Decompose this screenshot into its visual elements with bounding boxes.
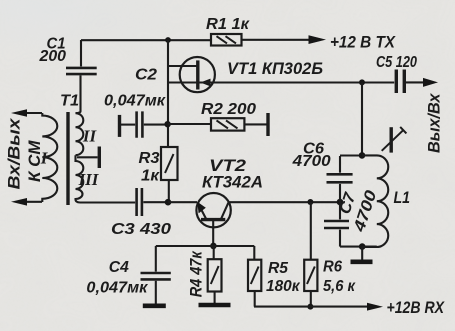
- label winding II: [82, 127, 98, 146]
- wire source rail: [168, 81, 394, 83]
- capacitor C2: [120, 111, 168, 137]
- svg-text:К СМ: К СМ: [25, 140, 44, 182]
- node emitter junction: [165, 199, 172, 206]
- svg-text:R4 47к: R4 47к: [187, 250, 206, 297]
- inductor L1: [362, 155, 388, 247]
- label winding I: [40, 149, 49, 168]
- resistor R6: [304, 202, 317, 307]
- node tank mid: [337, 199, 344, 206]
- ground tank: [351, 247, 373, 262]
- svg-text:Т1: Т1: [60, 93, 79, 110]
- transformer T1 core: [66, 112, 69, 205]
- label L1: [394, 188, 411, 207]
- resistor R3: [161, 147, 178, 202]
- label T1: [60, 93, 79, 110]
- svg-text:200: 200: [39, 48, 67, 65]
- wire +12V RX rail: [254, 303, 383, 311]
- resistor R2: [168, 118, 267, 130]
- label R6 value: [323, 259, 356, 296]
- capacitor C7: [324, 202, 349, 247]
- label C1 value: [39, 36, 67, 66]
- L1 trimmer core: [382, 127, 407, 153]
- capacitor C3: [80, 188, 167, 216]
- ground R4: [199, 303, 231, 308]
- label R5 value: [266, 260, 300, 295]
- capacitor C6: [327, 156, 353, 202]
- resistor R5: [248, 246, 261, 307]
- svg-text:+12 В ТХ: +12 В ТХ: [330, 33, 396, 52]
- ground C4: [143, 303, 166, 308]
- transistor VT2: [196, 193, 230, 246]
- label Vyh/Vh output: [425, 92, 444, 153]
- svg-text:Вых/Вх: Вых/Вх: [425, 92, 444, 153]
- node RX rail: [307, 304, 313, 310]
- svg-text:R3: R3: [139, 150, 160, 167]
- svg-text:+12В RX: +12В RX: [387, 298, 446, 317]
- label +12V TX: [330, 33, 396, 52]
- label R2 value: [201, 101, 256, 118]
- label VT2 type: [202, 156, 263, 192]
- svg-text:R6: R6: [323, 259, 342, 276]
- T1 winding I: [42, 113, 57, 202]
- label VT1 type: [227, 59, 323, 78]
- wire tank top link: [340, 154, 362, 156]
- node source/C5 junction: [359, 79, 365, 85]
- wire collector rail: [229, 201, 340, 203]
- svg-text:4700: 4700: [292, 153, 331, 170]
- node base junction: [210, 243, 217, 250]
- svg-text:Вх/Вых: Вх/Вых: [5, 117, 24, 190]
- label winding III: [78, 170, 100, 189]
- label C4 value: [86, 259, 148, 297]
- svg-text:КТ342А: КТ342А: [202, 173, 263, 192]
- svg-text:R1 1к: R1 1к: [206, 16, 250, 33]
- wire tank top vertical: [361, 82, 363, 155]
- wire gate vertical: [167, 40, 169, 147]
- label C3 value: [111, 221, 171, 238]
- wire input bottom arrow: [11, 198, 42, 206]
- svg-text:0,047мк: 0,047мк: [86, 280, 148, 297]
- svg-text:180к: 180к: [266, 278, 300, 295]
- node gate bias junction: [164, 121, 170, 127]
- wire base bias rail: [156, 245, 255, 247]
- node top junction: [165, 37, 171, 43]
- T1 tap terminal: [98, 147, 101, 169]
- wire emitter lead: [168, 201, 197, 203]
- transistor VT1: [180, 57, 215, 92]
- svg-text:R2 200: R2 200: [201, 101, 256, 118]
- label Vh/Vyh: [5, 117, 24, 190]
- label R1 value: [206, 16, 250, 33]
- svg-text:С3 430: С3 430: [111, 221, 171, 238]
- svg-text:5,6 к: 5,6 к: [323, 278, 356, 295]
- arrowhead output: [423, 78, 438, 87]
- label C7 value: [337, 188, 381, 234]
- capacitor C5: [396, 70, 424, 94]
- label K CM: [25, 140, 44, 182]
- label C2 value: [104, 67, 166, 110]
- R2 terminal: [266, 113, 269, 136]
- capacitor C4: [141, 246, 171, 304]
- label C6 value: [292, 141, 331, 171]
- label +12V RX: [387, 298, 446, 317]
- svg-text:С2: С2: [135, 67, 157, 84]
- resistor R1: [211, 34, 242, 46]
- wire top rail right to +12V TX: [242, 39, 312, 41]
- node tank top: [359, 152, 366, 159]
- node R6 top: [307, 199, 313, 205]
- T1 tap wire: [77, 156, 98, 158]
- wire top rail left: [81, 39, 211, 41]
- node tank bottom ground tap: [359, 243, 366, 250]
- wire input top arrow: [11, 109, 42, 117]
- svg-text:L1: L1: [394, 188, 411, 207]
- svg-text:III: III: [78, 170, 100, 189]
- T1 winding III: [75, 155, 83, 202]
- label C5 value: [376, 54, 417, 71]
- wire tank bottom link: [340, 246, 377, 248]
- resistor R4: [208, 246, 222, 303]
- wire VT1 drain lead: [168, 65, 197, 67]
- capacitor C1: [66, 40, 97, 112]
- svg-text:VT1 КП302Б: VT1 КП302Б: [227, 59, 323, 78]
- T1 winding II: [76, 112, 84, 156]
- svg-text:R5: R5: [268, 260, 289, 277]
- svg-text:С5 120: С5 120: [376, 54, 417, 71]
- svg-text:0,047мк: 0,047мк: [104, 93, 166, 110]
- svg-text:1к: 1к: [141, 168, 160, 185]
- svg-text:II: II: [82, 127, 98, 146]
- label R4 value: [187, 250, 206, 297]
- svg-text:С4: С4: [109, 259, 129, 276]
- arrowhead +12V TX: [309, 35, 327, 44]
- label R3 value: [139, 150, 160, 185]
